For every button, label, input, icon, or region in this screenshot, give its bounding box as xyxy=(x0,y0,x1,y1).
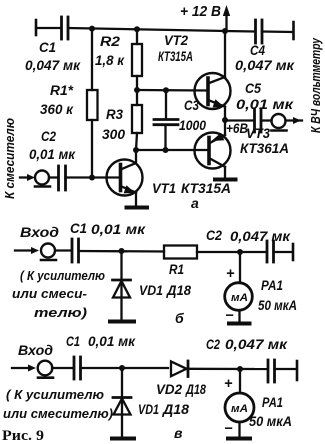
svg-text:0,047 мк: 0,047 мк xyxy=(230,229,291,244)
capacitor C1 xyxy=(62,17,69,39)
ground PA1 (v) xyxy=(228,437,250,441)
wire VT3 base xyxy=(136,149,209,151)
svg-text:С1: С1 xyxy=(70,221,87,236)
svg-text:С4: С4 xyxy=(250,43,265,58)
input arrow (v) xyxy=(12,365,36,372)
svg-text:1000: 1000 xyxy=(179,118,206,133)
node PA1 junction (b) xyxy=(237,249,243,255)
svg-text:0,01 мк: 0,01 мк xyxy=(236,97,294,112)
node VD1 junction (v) xyxy=(119,365,125,371)
terminal bar right (b) xyxy=(292,244,295,260)
svg-text:С1: С1 xyxy=(39,40,56,55)
svg-text:+: + xyxy=(224,376,233,392)
svg-text:50 мкА: 50 мкА xyxy=(249,414,292,429)
node junction +12V / VT2 collector xyxy=(222,28,228,34)
capacitor C2 (v) xyxy=(268,360,275,382)
ground PA1 (b) xyxy=(229,322,250,326)
capacitor C2 xyxy=(59,166,66,190)
diode VD1 (b) xyxy=(113,251,131,320)
svg-text:КТ315А: КТ315А xyxy=(158,49,193,64)
wire VT1 base xyxy=(66,176,121,178)
transistor VT2 xyxy=(195,31,231,120)
node R1 bottom xyxy=(89,175,95,181)
svg-text:РА1: РА1 xyxy=(261,278,283,293)
resistor R2 xyxy=(132,29,142,90)
resistor R1 xyxy=(87,29,98,178)
capacitor C5 xyxy=(225,109,272,132)
node C3 bottom xyxy=(163,147,169,153)
node VD1 junction (b) xyxy=(119,248,125,254)
wire xyxy=(52,367,73,369)
svg-text:или смеси-: или смеси- xyxy=(12,286,87,301)
wire xyxy=(81,367,169,369)
svg-text:−: − xyxy=(224,421,233,437)
svg-text:+6В: +6В xyxy=(226,121,248,136)
ground VT1 emitter xyxy=(127,206,148,210)
svg-text:VT3: VT3 xyxy=(246,126,270,141)
svg-text:0,047 мк: 0,047 мк xyxy=(225,337,288,352)
svg-text:50 мкА: 50 мкА xyxy=(258,298,297,313)
node R2/R3 junction xyxy=(134,87,140,93)
svg-text:R3: R3 xyxy=(106,107,123,122)
meter PA1 (v) xyxy=(225,369,254,437)
capacitor C3 xyxy=(154,90,178,150)
ground VT3 collector xyxy=(215,178,236,182)
svg-text:( К усилителю: ( К усилителю xyxy=(6,387,104,402)
svg-text:0,01 мк: 0,01 мк xyxy=(88,334,136,349)
svg-text:РА1: РА1 xyxy=(262,395,283,410)
svg-text:1,8 к: 1,8 к xyxy=(95,53,125,68)
svg-text:б: б xyxy=(175,310,184,326)
capacitor C2 (b) xyxy=(267,241,274,262)
node C3 top xyxy=(163,87,169,93)
svg-text:VD2: VD2 xyxy=(156,382,182,397)
terminal bar right (v) xyxy=(296,361,299,380)
svg-text:VD1: VD1 xyxy=(139,283,163,298)
svg-text:VT1: VT1 xyxy=(152,181,176,196)
svg-text:Вход: Вход xyxy=(20,225,59,240)
svg-text:R2: R2 xyxy=(100,34,121,49)
svg-text:+: + xyxy=(226,266,235,282)
svg-text:в: в xyxy=(174,425,183,441)
svg-text:или смесителю): или смесителю) xyxy=(3,406,113,421)
capacitor C1 (v) xyxy=(74,357,81,379)
svg-text:0,01 мк: 0,01 мк xyxy=(29,147,76,162)
svg-text:С2: С2 xyxy=(206,337,220,352)
svg-text:Рис. 9: Рис. 9 xyxy=(2,428,44,444)
svg-text:Вход: Вход xyxy=(18,343,53,358)
wire xyxy=(49,176,57,178)
svg-text:Д18: Д18 xyxy=(166,283,191,298)
svg-text:VT2: VT2 xyxy=(164,33,188,48)
wire xyxy=(36,27,60,29)
wire +12V rail xyxy=(68,28,225,31)
svg-text:300: 300 xyxy=(102,127,125,142)
node +6V junction xyxy=(222,117,228,123)
ground VD1 (b) xyxy=(110,320,134,324)
svg-text:R1: R1 xyxy=(169,262,184,277)
svg-text:С2: С2 xyxy=(206,228,222,243)
transistor VT3 xyxy=(195,120,231,178)
wire xyxy=(274,251,293,253)
svg-text:С2: С2 xyxy=(41,129,56,144)
meter PA1 (b) xyxy=(225,252,253,322)
+12V arrow xyxy=(223,5,230,29)
svg-text:телю): телю) xyxy=(34,305,87,320)
svg-text:R1*: R1* xyxy=(50,83,74,98)
svg-text:−: − xyxy=(225,308,234,324)
resistor R3 xyxy=(132,90,142,150)
svg-text:а: а xyxy=(191,195,199,211)
terminal bar left of C1 xyxy=(35,20,38,35)
svg-text:Д18: Д18 xyxy=(162,402,190,417)
capacitor C4 xyxy=(225,20,292,43)
wire xyxy=(55,249,71,251)
node PA1 junction (v) xyxy=(237,366,243,372)
svg-text:( К усилителю: ( К усилителю xyxy=(20,268,105,283)
wire xyxy=(197,251,266,253)
svg-text:0,047 мк: 0,047 мк xyxy=(235,58,295,73)
svg-text:КТ361А: КТ361А xyxy=(240,141,289,156)
svg-text:0,047 мк: 0,047 мк xyxy=(25,58,81,73)
svg-text:0,01 мк: 0,01 мк xyxy=(91,222,146,237)
terminal bar right of C4 xyxy=(292,22,295,39)
resistor R1 (b) xyxy=(164,246,197,259)
svg-text:мА: мА xyxy=(231,292,248,304)
output terminal circle (a) xyxy=(272,114,287,131)
input arrow (b) xyxy=(15,247,39,254)
input terminal circle (a) xyxy=(35,171,50,187)
svg-text:+ 12 В: + 12 В xyxy=(180,4,221,20)
svg-text:К смесителю: К смесителю xyxy=(3,118,17,199)
wire xyxy=(79,250,165,253)
node junction C1/R1 xyxy=(89,26,95,32)
node junction R2 top xyxy=(134,26,140,32)
svg-text:С1: С1 xyxy=(66,334,80,349)
svg-text:360 к: 360 к xyxy=(40,102,74,117)
svg-text:С3: С3 xyxy=(184,98,199,113)
input terminal circle (b) xyxy=(41,244,56,261)
wire xyxy=(275,368,296,370)
svg-text:К ВЧ вольтметру: К ВЧ вольтметру xyxy=(309,37,323,133)
transistor VT1 xyxy=(107,150,143,206)
capacitor C1 (b) xyxy=(72,239,79,262)
input terminal circle (v) xyxy=(38,361,53,378)
node VT1 collector junction xyxy=(133,147,139,153)
svg-text:Д18: Д18 xyxy=(185,382,206,397)
svg-text:КТ315А: КТ315А xyxy=(181,181,231,196)
svg-text:мА: мА xyxy=(231,403,248,415)
output arrow (a) xyxy=(286,117,303,124)
wire VT2 base xyxy=(137,89,208,92)
input arrow (a) xyxy=(20,174,35,181)
ground VD1 (v) xyxy=(112,437,134,441)
svg-text:VD1: VD1 xyxy=(138,402,159,417)
diode VD1 (v) xyxy=(113,368,131,437)
svg-text:С5: С5 xyxy=(245,81,261,96)
diode VD2 (v) xyxy=(171,361,266,377)
